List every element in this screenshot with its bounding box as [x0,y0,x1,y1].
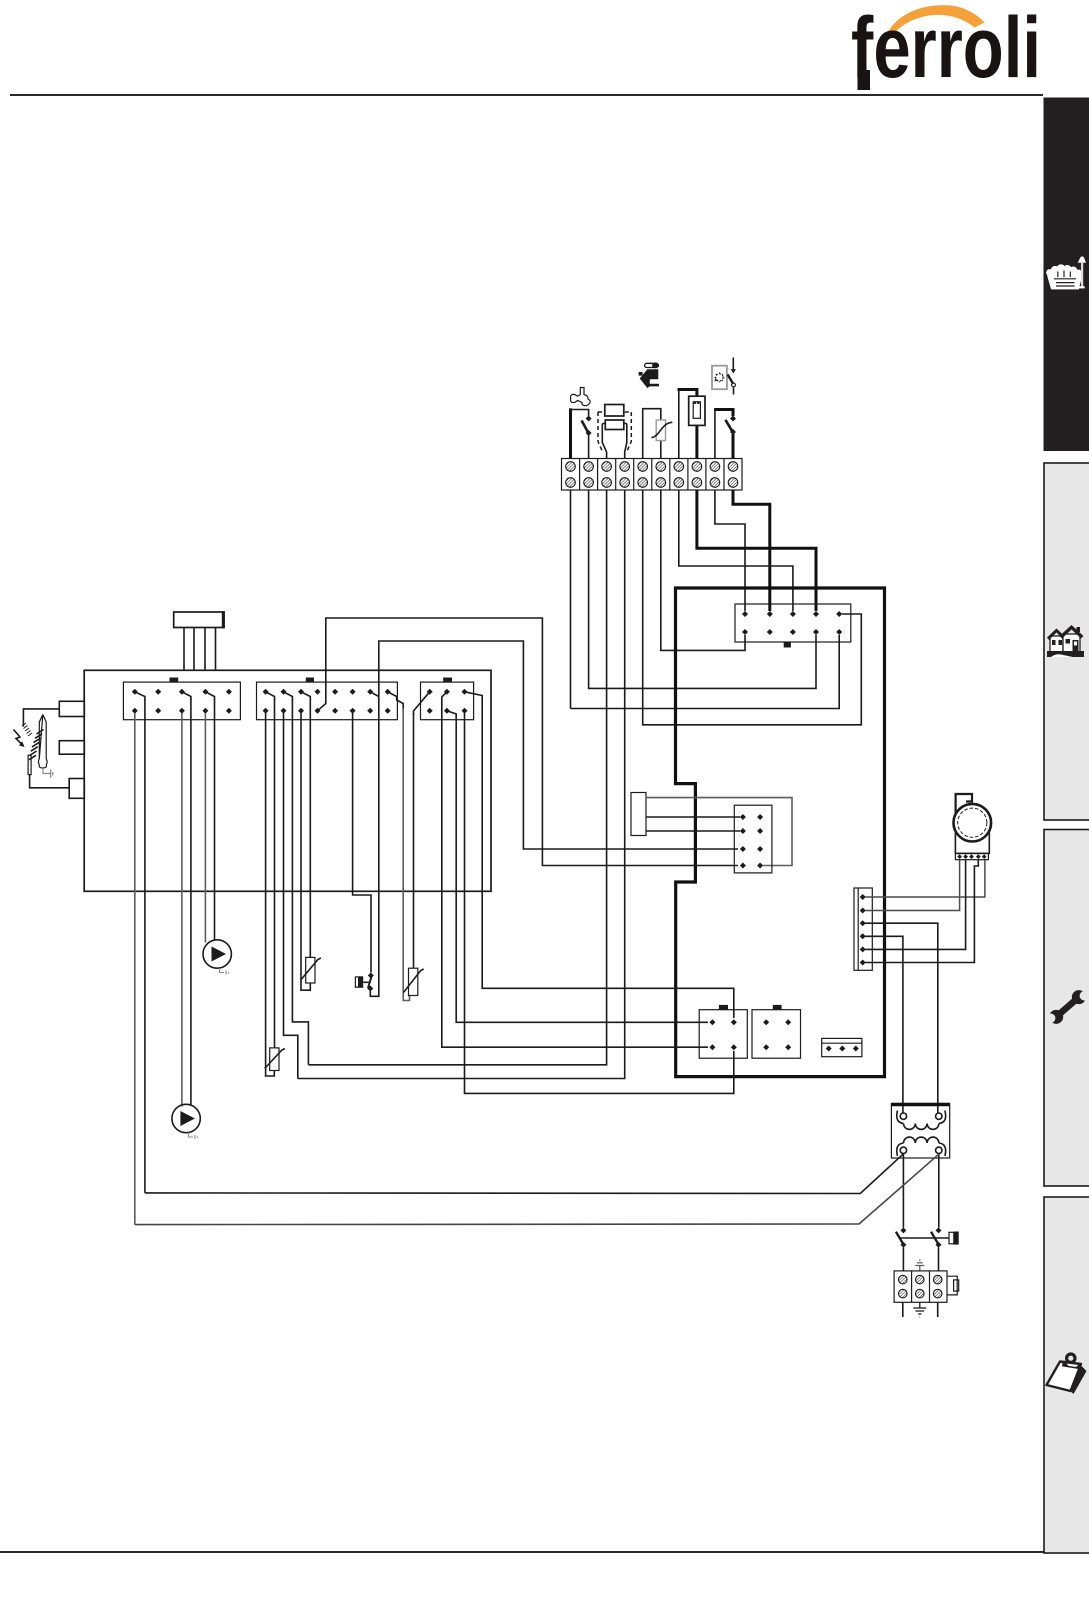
wire A-bot1 long loop (gray) [134,713,136,1225]
wire B-top1 to sensor C top [274,699,276,1048]
svg-text:ferroli: ferroli [851,0,1041,96]
connector block C [421,682,474,720]
terminal screws row 1 [566,462,738,472]
hot water tap icon (filled) [639,362,659,388]
block B pin elbows [266,692,275,700]
wire C-bot2 drop to D1 top-left [456,716,708,1022]
X2 connector body (10 pin) [735,604,851,642]
X6 pin1 wire to fan pin5 [865,860,985,897]
wire A-top1 long loop [144,699,146,1193]
D2 pins [763,1019,791,1050]
block A pins [132,689,232,714]
probe resistor rect 2 [605,420,624,430]
wire C-top2 drop to D1 bottom-left [442,700,708,1047]
X4 pins [740,814,763,869]
sidebar tab 1 (black) [1044,98,1089,452]
clipboard icon [1047,1354,1087,1394]
wire T5 to X2 top pin5 hook [643,490,862,725]
X6 pin4 wire to transformer primary left [865,936,903,1113]
pump 1 (DHW circulator) [203,940,231,968]
sensor A (DHW NTC) [306,957,315,983]
wire T2 to X2 bottom pin4 [589,490,816,688]
D1 relay connector [699,1010,747,1058]
wire A-bot3 to pump2 (gray) [181,713,183,1107]
safety thermostat loop T7-T8 [678,390,680,459]
X6 vertical connector strip [854,888,872,970]
top rule [10,94,1043,96]
earth symbol above mains block [915,1260,924,1271]
wire C-bot3 drop to D1 bottom-right loop [465,713,734,1093]
wire B-bot2 staircase to T4 [284,713,298,1079]
burner electrode candle [39,715,46,760]
connector block B [257,682,398,720]
transformer top bar (thick) [891,1103,949,1106]
timer return wire to B-top7 [370,699,379,996]
display wires to X4 rows 1-2 [646,816,740,818]
ignition electrode tip (hatched) [22,723,32,736]
terminal strip cell dividers [580,459,724,491]
wire T4 long drop to relay board [298,490,625,1079]
block A notch [170,678,179,683]
connector block A [123,682,240,720]
X2 pins top row [742,611,748,617]
spark arrow [14,730,24,747]
block C pins [427,689,468,714]
timer motor box [355,976,363,988]
timer contact diamonds [368,973,374,979]
wire A-top3 to pump2 [190,699,192,1106]
switch actuator box [949,1232,954,1244]
terminal strip X1 body [562,459,743,491]
transformer box [891,1104,949,1159]
D1 pins [709,1019,736,1050]
X2 pins bottom row [742,629,748,635]
sidebar tab 4 (gray) [1044,1197,1089,1553]
coil hatches [29,730,44,760]
wire T1 to X2 bottom pin5 (thick) [570,490,572,709]
DHW flow switch loop T1-T2 [569,408,572,458]
pump 2 (heating circulator) [172,1104,200,1132]
ignition transformer block above box [174,612,224,628]
safety thermostat box [689,396,705,425]
block A pin elbows [135,692,145,700]
mains plug tab right [947,1276,957,1295]
loop wire lower to transformer secondary right [135,1154,939,1224]
electrode tab 3 [69,779,84,799]
wire B-top8 to sensor B bottom (gray) [403,708,409,1001]
X6 pins [860,894,866,966]
wire A-top4 to pump1 [214,699,216,941]
switch link bar [900,1237,950,1239]
block C elbows [414,692,430,715]
probe resistor rect 1 [605,405,624,417]
sensing electrode wire [30,775,70,788]
ignition transformer leads [184,628,216,671]
sidebar tab 2 (gray) [1044,463,1089,820]
X6 pin2 wire to fan pin1 [865,860,960,911]
wire T8 to X2 top pin4 (thick) [697,490,816,611]
X4 connector (8 pin) [734,805,772,873]
fan blower circle [954,804,992,842]
timer link wire [363,981,369,983]
fan duct outlet [956,794,972,815]
main switch pole L contacts [900,1227,906,1233]
block B pins [263,689,391,714]
boiler unit thick boundary [676,588,885,1077]
ferroli orange swoosh [889,5,985,33]
X2 polarity notch [784,642,791,648]
display hook wire around X4 [646,798,792,866]
wire B-top2 staircase to T3 [292,699,308,1065]
wire A-bot4 to pump1 (gray) [204,713,206,943]
X6 pin5 wire to fan pin2 [865,860,966,949]
transformer secondary winding [897,1137,946,1156]
room thermostat icon [712,366,727,390]
probe funnel outline [602,424,627,459]
X5 3-pin connector [822,1038,862,1056]
faucet icon (DHW tap outline) [571,388,591,406]
block B notch [306,678,314,683]
wire C-top1 to sensor B top [413,713,415,968]
wire T6 to X2 bottom pin1 [661,490,745,650]
flow switch contact diamonds [586,416,592,422]
wire T9 to X2 top pin1 [715,490,745,611]
block C notch [443,678,452,683]
timer blade [368,977,372,989]
wire B-bot4 net riser [326,618,738,866]
switch to mains block wires [902,1248,904,1271]
electrode tab 1 [59,701,84,716]
X6 pin3 wire to transformer primary right [865,923,938,1113]
wire B-top7 net riser [379,641,738,849]
sofa icon [1046,264,1082,289]
main switch pole N contacts [936,1227,942,1233]
wrench icon [1044,985,1089,1028]
loop wire upper to transformer secondary left [145,1154,904,1194]
fuse cartridge [693,402,700,419]
ignition electrode wire [23,709,59,727]
DHW tank probe (dashed optional) [598,412,631,451]
mains L stub [902,1302,904,1317]
sidebar tab 3 (gray) [1044,830,1089,1187]
wire C-top3 drop to D1 top-right [482,699,734,1018]
wire B-bot6 to timer contact [353,713,371,973]
bottom rule [0,1551,1044,1553]
block B bottom pin4 feed from above [318,704,326,711]
transformer secondary terminals [900,1147,906,1153]
terminal screws row 2 [566,478,738,488]
room stat switch loop T9-T10 [714,410,716,458]
houses icon [1047,625,1084,657]
transformer primary winding [897,1111,946,1130]
sensing electrode bar [28,755,31,774]
sensor B (safety NTC) [409,968,418,995]
flow switch blade [582,421,589,433]
f descender [858,70,871,90]
candle ground lead [43,768,53,778]
wire B-top3 to sensor A top [309,699,311,957]
sensor C (heating NTC) [270,1048,279,1071]
display connector (small rect) [631,793,646,836]
fan housing box [955,833,989,853]
mains N stub [937,1302,939,1317]
secondary drop wires to switch [902,1154,904,1228]
wire T10 to X2 top pin2 (thick) [733,490,770,611]
D1 notch [719,1005,728,1010]
wire B-bot1 to sensor C bottom [266,713,275,1076]
D2 spare connector [752,1010,801,1058]
outdoor sensor loop T5-T6 [643,409,661,459]
outdoor sensor NTC [656,420,665,441]
mains terminal block [894,1271,947,1302]
main PCB box [84,670,491,891]
D2 notch [773,1005,782,1010]
transformer primary terminals [900,1113,906,1119]
X6 pin6 wire to fan pin4 [865,860,978,963]
wire T7 to X2 top pin3 [679,490,793,611]
fan terminal bar [955,853,988,859]
earth symbol below mains block [913,1302,926,1317]
mains supply switch icon [732,358,734,371]
wire T3 long drop to relay board [308,490,606,1065]
wire B-bot3 to sensor A bottom [301,713,310,990]
electrode tab 2 [59,741,84,755]
